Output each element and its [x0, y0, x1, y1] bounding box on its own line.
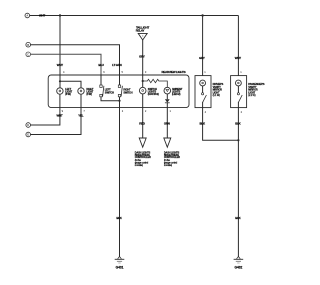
svg-text:module): module)	[164, 164, 172, 167]
label DRIVER'S VANITY MIRROR LIGHT (1.1 W)	[213, 83, 224, 97]
driver's vanity switch	[202, 86, 204, 93]
svg-text:(8 W): (8 W)	[86, 93, 92, 96]
diode under LED	[166, 94, 168, 99]
svg-text:SWITCH: SWITCH	[105, 91, 114, 94]
svg-text:(LED×2): (LED×2)	[172, 93, 181, 96]
wire RED to brightness controller	[142, 108, 144, 138]
label RIGHT LIGHT (8 W)	[86, 88, 94, 96]
wire left switch top	[100, 75, 102, 85]
label SWITCH LIGHTS (0.84 W x2)	[148, 88, 159, 96]
connector A	[25, 13, 30, 18]
svg-text:WHT: WHT	[57, 114, 63, 118]
taillight relay triangle	[138, 33, 147, 40]
svg-text:GRN: GRN	[164, 121, 170, 125]
switch lights bulb	[139, 87, 146, 94]
left light bulb	[57, 88, 63, 94]
wire WHT to passenger's vanity light	[237, 16, 239, 76]
wire left bulb to pin 9	[59, 94, 61, 107]
svg-text:A: A	[26, 14, 28, 18]
connector D	[26, 123, 31, 128]
svg-text:G401: G401	[116, 266, 124, 270]
svg-text:WHT: WHT	[39, 14, 45, 18]
svg-text:GRY: GRY	[199, 56, 205, 60]
svg-text:SWITCH: SWITCH	[123, 91, 132, 94]
svg-text:GRY: GRY	[139, 55, 145, 59]
rearview lights box	[48, 75, 189, 108]
wire WHT to connector D	[31, 108, 60, 125]
wire BLK switches to ground G401	[119, 108, 121, 257]
svg-text:E: E	[27, 133, 29, 137]
svg-text:WHT: WHT	[57, 63, 63, 67]
connector B	[26, 42, 31, 47]
svg-text:RELAY: RELAY	[136, 29, 145, 33]
svg-text:B: B	[27, 43, 29, 47]
ground G402	[237, 257, 241, 259]
svg-text:BLU: BLU	[98, 63, 103, 67]
svg-text:C: C	[27, 53, 29, 57]
wire switch lights bulb to box bottom	[142, 94, 144, 108]
connector E	[26, 132, 31, 137]
svg-text:(8 W): (8 W)	[65, 93, 71, 96]
svg-text:D: D	[27, 123, 29, 127]
svg-text:REARVIEW LIGHTS: REARVIEW LIGHTS	[162, 70, 186, 74]
label PASSENGER'S VANITY MIRROR LIGHT (2.1 W)	[248, 83, 265, 97]
node junction resistor	[142, 80, 144, 82]
ambient lights LED	[164, 87, 171, 94]
node junction A/x202.5	[201, 14, 203, 16]
wire right switch top	[119, 75, 121, 85]
wire LED to box bottom	[166, 103, 168, 108]
wire switches to box bottom	[119, 97, 121, 108]
ground G401	[118, 257, 122, 259]
passenger's vanity mirror light box	[231, 76, 247, 108]
node junction left bulb	[59, 80, 61, 82]
driver's vanity bulb	[200, 80, 206, 86]
node switch bottoms junction	[118, 100, 120, 102]
svg-text:module): module)	[135, 164, 143, 167]
svg-text:WHT: WHT	[235, 56, 241, 60]
label LEFT LIGHT (8 W)	[65, 88, 72, 96]
wire left switch bottom	[101, 97, 120, 101]
wire GRN to brightness controller	[166, 108, 168, 138]
left switch	[100, 85, 102, 87]
wire WHT down to pin 4	[59, 16, 61, 76]
svg-text:LT GRN: LT GRN	[112, 63, 121, 67]
passenger's vanity bulb	[236, 80, 242, 86]
svg-text:RED: RED	[139, 121, 145, 125]
right light bulb	[78, 88, 84, 94]
label dash lights brightness controller 1	[135, 152, 151, 167]
svg-text:(1.1 W): (1.1 W)	[213, 94, 220, 97]
wire relay to pin 3 GRY	[142, 40, 144, 75]
svg-text:(2.1 W): (2.1 W)	[248, 94, 255, 97]
svg-text:YEL: YEL	[78, 114, 83, 118]
wire pin3 branch down	[142, 75, 144, 87]
arrow to dash lights brightness controller 2	[164, 138, 171, 147]
wire B row to right switch	[31, 45, 120, 75]
wire A row WHT	[30, 15, 239, 17]
wire YEL to connector E	[31, 108, 82, 135]
driver's vanity mirror light box	[195, 76, 211, 108]
node junction BLK	[237, 139, 239, 141]
right switch	[118, 85, 120, 87]
svg-text:(0.84 W×2): (0.84 W×2)	[148, 93, 159, 96]
arrow to dash lights brightness controller 1	[139, 138, 146, 147]
wire inside: junction to left bulb	[59, 75, 61, 88]
connector C	[26, 52, 31, 57]
passenger's vanity switch	[237, 86, 239, 93]
wire C row to left switch	[31, 54, 102, 75]
svg-text:G402: G402	[234, 266, 242, 270]
wire GRY to driver's vanity light	[202, 16, 204, 76]
label dash lights brightness controller 2	[164, 152, 180, 167]
label AMBIENT LIGHTS (LED x2)	[172, 88, 183, 96]
wire junction to right bulb	[60, 81, 81, 88]
wire BLK driver vanity	[203, 108, 239, 141]
node junction A/x60	[59, 14, 61, 16]
wire BLK passenger vanity to ground	[237, 108, 239, 257]
resistor (illumination)	[143, 79, 168, 87]
wire right bulb to pin 7	[80, 94, 82, 107]
